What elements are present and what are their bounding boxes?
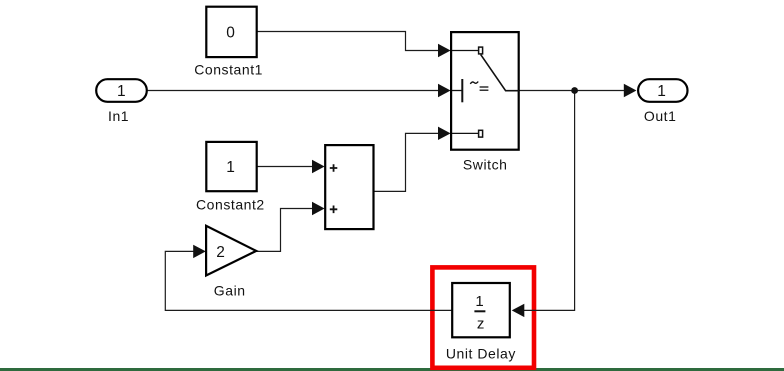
svg-text:Constant2: Constant2 bbox=[196, 197, 265, 213]
svg-text:z: z bbox=[477, 316, 485, 333]
svg-text:1: 1 bbox=[657, 83, 666, 100]
svg-text:2: 2 bbox=[216, 244, 225, 261]
svg-text:Constant1: Constant1 bbox=[194, 62, 263, 78]
svg-text:1: 1 bbox=[475, 293, 483, 310]
svg-text:1: 1 bbox=[117, 83, 126, 100]
svg-text:In1: In1 bbox=[108, 108, 129, 124]
svg-text:0: 0 bbox=[226, 25, 235, 42]
svg-text:Out1: Out1 bbox=[644, 108, 677, 124]
svg-text:Switch: Switch bbox=[463, 156, 508, 172]
svg-text:Gain: Gain bbox=[214, 283, 246, 299]
svg-text:1: 1 bbox=[226, 159, 235, 176]
svg-text:Unit Delay: Unit Delay bbox=[446, 345, 516, 361]
